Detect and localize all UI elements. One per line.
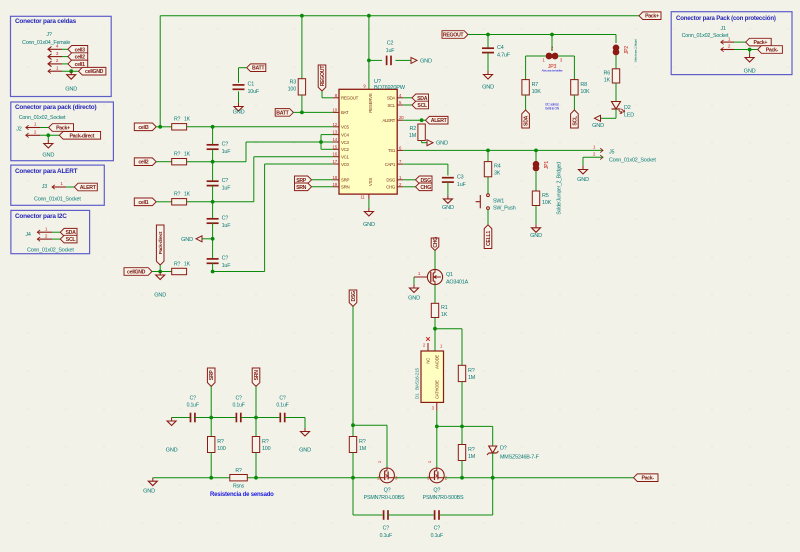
svg-text:GND: GND [42, 153, 54, 159]
gnd global label right of C2 [411, 57, 432, 64]
annotation box Conector para I2C [11, 210, 90, 253]
svg-text:100: 100 [288, 86, 297, 92]
title Conector para ALERT [15, 168, 78, 175]
svg-text:0.1uF: 0.1uF [276, 403, 288, 409]
connector J3 value Conn_01x01_Socket [34, 197, 81, 203]
svg-text:SDA: SDA [387, 96, 395, 101]
wire R5 to GND [535, 206, 537, 225]
svg-text:SRP: SRP [209, 370, 215, 381]
wire JP3 stub [551, 35, 553, 52]
wire J2 pin1 to Pack+ label [40, 127, 49, 129]
capacitor C? 0.1uF (left) [191, 413, 195, 423]
solder jumper JP3 [542, 46, 563, 63]
label cell3 [68, 46, 88, 54]
resistor R2 1M [409, 124, 425, 141]
svg-text:1: 1 [440, 344, 443, 349]
svg-text:Conector para Pack (con protec: Conector para Pack (con protección) [676, 15, 776, 22]
connector J5 reference [609, 150, 614, 156]
resistor R? Rsns [230, 475, 248, 481]
wire cell3 row to VC5 [213, 126, 333, 128]
svg-text:RESERVE: RESERVE [368, 93, 373, 113]
wire cell2 label to resistor [156, 161, 172, 163]
svg-text:C?: C? [279, 396, 286, 402]
svg-text:20: 20 [399, 115, 404, 120]
svg-text:1K: 1K [184, 117, 191, 123]
capacitor C? snubber right fields [431, 526, 443, 540]
wire snubber left riser [353, 478, 383, 515]
junction cap chain cell3 [211, 125, 215, 129]
svg-text:3: 3 [432, 406, 435, 411]
connector J1 pin 1 [721, 36, 734, 44]
svg-text:18: 18 [333, 175, 338, 180]
title Conector para celdas [15, 18, 77, 25]
svg-text:cellGND: cellGND [85, 69, 104, 75]
ground below C4 [482, 71, 494, 91]
svg-text:R3: R3 [290, 79, 297, 85]
svg-text:BAS16-215: BAS16-215 [415, 368, 420, 390]
wire C2 node to cap [369, 59, 382, 61]
ground below J5 pin2 [577, 166, 589, 183]
wire R3 to BAT node [301, 95, 303, 112]
connector J? pin 1 [48, 65, 62, 73]
label BATT at C1 [247, 64, 266, 72]
LED D2 reference [624, 105, 631, 111]
IC U? reference [374, 79, 381, 85]
svg-text:6: 6 [399, 145, 402, 150]
svg-text:VC1: VC1 [341, 155, 349, 160]
resistor R6 1K [604, 69, 620, 84]
svg-text:19: 19 [333, 182, 338, 187]
svg-text:3: 3 [56, 51, 59, 56]
connector J2 pin 2 [26, 130, 40, 138]
svg-text:D1: D1 [415, 393, 420, 399]
annotation box Conector para Pack con proteccion [671, 12, 792, 75]
svg-text:12: 12 [333, 122, 338, 127]
svg-text:Conn_01x02_Socket: Conn_01x02_Socket [682, 33, 729, 39]
wire J2 pin2 gnd stem [47, 135, 49, 140]
svg-text:1M: 1M [409, 133, 417, 139]
wire source rail right [445, 477, 634, 479]
svg-text:0.1uF: 0.1uF [187, 403, 199, 409]
resistor Rsns fields [233, 468, 245, 490]
svg-text:R7: R7 [532, 82, 539, 88]
wire SRP to R100 [210, 418, 212, 437]
wire SW1 to CELL1 label [487, 210, 489, 225]
svg-text:R?: R? [217, 439, 224, 445]
wire cell1 label to resistor [156, 201, 172, 203]
svg-text:PSMN7R0-500BS: PSMN7R0-500BS [423, 495, 464, 501]
wire pin 1 to cellGND label [62, 70, 79, 72]
wire zener to rail [492, 453, 494, 478]
svg-text:R4: R4 [494, 164, 501, 170]
svg-text:C?: C? [222, 256, 229, 262]
label CHG (vertical) [431, 237, 439, 251]
label SDA (vertical) [522, 110, 530, 128]
resistor fields R? 1K (cellGND row) [174, 261, 191, 267]
svg-text:2: 2 [56, 58, 59, 63]
label Pack+ (directo) [49, 124, 74, 132]
resistor fields R? 1K (cell2 row) [174, 152, 191, 158]
svg-text:GND: GND [166, 448, 178, 454]
svg-text:CAP1: CAP1 [385, 162, 396, 167]
label SRP (vertical) [207, 368, 215, 386]
svg-text:R?: R? [468, 447, 475, 453]
connector J1 reference [721, 26, 726, 32]
junction J2 pin2 gnd [46, 133, 50, 137]
svg-text:R6: R6 [604, 71, 611, 77]
svg-text:R?: R? [468, 368, 475, 374]
svg-text:Resistencia de sensado: Resistencia de sensado [210, 492, 274, 498]
svg-text:NC: NC [426, 358, 431, 364]
svg-text:AO3401A: AO3401A [446, 280, 469, 286]
zener diode D? MMSZ5246B [487, 446, 498, 455]
svg-text:C?: C? [235, 396, 242, 402]
svg-text:GND: GND [442, 205, 454, 211]
wire JP1 to R5 [535, 171, 537, 191]
ground at Q1 gate [408, 285, 420, 302]
capacitor C? 0.1uF left fields [187, 396, 199, 409]
connector J1 value Conn_01x02_Socket [682, 33, 729, 39]
svg-text:CATHODE: CATHODE [435, 380, 440, 399]
title Conector para pack (directo) [15, 104, 96, 111]
svg-text:J3: J3 [42, 184, 47, 190]
svg-text:100: 100 [262, 446, 271, 452]
junction cap chain cellGND [211, 270, 215, 274]
svg-text:J1: J1 [721, 26, 726, 32]
wire SRN label down [255, 386, 257, 417]
transistor Q1 reference [446, 272, 453, 278]
Q? left value PSMN7R0-L00BS [364, 495, 405, 501]
svg-text:SCL: SCL [387, 103, 395, 108]
diode D1 BAS16-215 body [421, 351, 444, 402]
wire Pack-direct label to cellGND row [159, 265, 161, 272]
wire JP3 left to R7 [526, 56, 546, 80]
junction TS1 JP1 [534, 149, 538, 153]
wire VC3 stub [321, 141, 333, 143]
ground left of cap row [166, 418, 178, 454]
svg-text:2: 2 [45, 233, 48, 238]
svg-text:2: 2 [551, 46, 554, 51]
capacitor C? 0.1uF (mid) [236, 413, 240, 423]
junction C2 node [367, 59, 371, 63]
svg-text:VC5: VC5 [341, 125, 349, 130]
capacitor C4 4.7uF [482, 45, 511, 59]
svg-text:9: 9 [363, 84, 366, 89]
wire node to upper R 1M [461, 329, 463, 366]
svg-text:GND: GND [233, 110, 245, 116]
svg-text:4.7uF: 4.7uF [497, 52, 511, 58]
label BATT at BAT pin [275, 109, 293, 117]
connector J? value Conn_01x04_Female [22, 40, 70, 46]
svg-text:SRN: SRN [254, 370, 260, 381]
resistor fields R? 1K (cell1 row) [174, 192, 191, 198]
diode D1 fields [415, 368, 420, 399]
ground in box2 [42, 140, 54, 159]
svg-text:GND: GND [577, 177, 589, 183]
resistor R? 1K (cellGND row) [172, 268, 187, 274]
svg-text:0.1uF: 0.1uF [380, 533, 392, 539]
wire C2 to GND label [395, 59, 411, 61]
svg-text:0.1uF: 0.1uF [232, 403, 244, 409]
label ALERT at IC [426, 116, 449, 124]
label SDA (box4) [60, 228, 77, 236]
label cell1 [68, 60, 88, 68]
annotation box Conector para pack directo [11, 102, 114, 161]
wire D1 cathode to gate node 2 [436, 411, 438, 427]
junction cap chain cell1 [211, 200, 215, 204]
svg-text:3: 3 [560, 58, 563, 63]
wire C4 to GND [487, 53, 489, 71]
wire SCL pin to label [403, 104, 412, 106]
svg-text:SDA: SDA [524, 115, 530, 126]
resistor fields R? 1K (cell3 row) [174, 117, 191, 123]
wire CHG node to zener column [437, 425, 493, 427]
wire top rail BATT to Pack+ [160, 15, 639, 17]
svg-text:DSG: DSG [386, 178, 395, 183]
capacitor C? 1uF (C) [207, 216, 232, 230]
wire DSG pin to label [403, 179, 415, 181]
svg-text:SW_Push: SW_Push [493, 206, 516, 212]
diode D1 pin names [426, 355, 440, 399]
wire R8 to SCL vlabel [573, 95, 575, 110]
wire REGOUT rail [468, 34, 616, 36]
resistor R7 10K [522, 80, 541, 95]
junction R 1M right top [460, 425, 464, 429]
wire R7 to SDA vlabel [525, 95, 527, 110]
svg-text:GND: GND [181, 237, 193, 243]
svg-text:ANODE: ANODE [435, 355, 440, 369]
wire REGOUT rail to JP2 [615, 35, 617, 44]
svg-text:BQ76920PW: BQ76920PW [374, 85, 406, 91]
svg-text:16: 16 [333, 152, 338, 157]
svg-text:17: 17 [333, 159, 338, 164]
JP1 reference [544, 161, 550, 169]
JP3 note (blue) [542, 69, 563, 73]
wire cell1 resistor to cap chain [187, 201, 213, 203]
wire J5 pin2 to GND [583, 157, 603, 166]
JP2 reference [624, 46, 630, 54]
svg-text:ALERT: ALERT [80, 185, 97, 191]
label REGOUT (vertical) [318, 65, 326, 91]
switch SW1 SW_Push [476, 194, 490, 210]
svg-text:GND: GND [299, 448, 311, 454]
svg-text:TS1: TS1 [388, 148, 396, 153]
svg-text:Q1: Q1 [446, 272, 453, 278]
gnd global label below R2 [427, 140, 448, 147]
wire R1 to gate node [434, 318, 436, 329]
zener D? value MMSZ5246B-7-F [500, 455, 540, 461]
junction VC3 tie [319, 140, 323, 144]
svg-text:cell3: cell3 [138, 125, 148, 131]
wire cap row left gnd [172, 417, 191, 419]
wire cell3 resistor to cap chain [187, 126, 213, 128]
svg-text:ALERT: ALERT [382, 118, 395, 123]
svg-text:cell1: cell1 [138, 200, 148, 206]
svg-text:VSS: VSS [368, 178, 373, 186]
wire SRP label to pin [312, 179, 334, 181]
wire J3 pin1 to ALERT label [66, 186, 74, 188]
svg-text:1uF: 1uF [222, 263, 232, 269]
label SRN (vertical) [252, 368, 260, 386]
svg-text:1: 1 [45, 226, 48, 231]
label cell1 (row) [134, 198, 156, 206]
wire cap chain segment D [212, 223, 214, 259]
label Pack+ (top right) [639, 12, 661, 20]
capacitor C? snubber left fields [380, 526, 392, 540]
connector J2 reference [16, 127, 21, 133]
junction cellGND gnd [158, 270, 162, 274]
capacitor C2 reference [387, 41, 394, 47]
label CELL1 (vertical) [484, 225, 492, 249]
wire cap row seg1b [195, 417, 211, 419]
label Pack- (rail) [634, 474, 659, 482]
wire SRN to R100 [255, 418, 257, 437]
svg-text:REGOUT: REGOUT [320, 65, 326, 87]
capacitor C? 0.1uF right fields [276, 396, 288, 409]
capacitor C3 1uF [442, 174, 467, 188]
wire pin 2 to cell1 label [62, 63, 68, 65]
resistor R4 3K [484, 162, 500, 177]
wire cell2 resistor to cap chain [187, 161, 213, 163]
wire CAP1 to C3 [403, 164, 448, 175]
wire J4 pin2 to SCL label [52, 238, 60, 240]
svg-text:R5: R5 [542, 193, 549, 199]
wire cap chain segment B [212, 149, 214, 181]
svg-text:1: 1 [418, 271, 421, 276]
connector J? pin 2 [48, 58, 62, 67]
svg-text:Pack-: Pack- [641, 476, 654, 482]
svg-text:C?: C? [190, 396, 197, 402]
svg-text:Conn_01x02_Socket: Conn_01x02_Socket [609, 158, 656, 164]
svg-text:SRN: SRN [296, 185, 307, 191]
wire TS1 to JP1 [535, 150, 537, 161]
connector J? pin 4 [48, 44, 62, 53]
JP3 reference [548, 64, 557, 70]
pin number 9 (reserve) [363, 84, 366, 89]
wire R 1M to source rail [352, 453, 354, 478]
wire SRP label down [210, 386, 212, 417]
svg-text:JP1: JP1 [544, 161, 550, 169]
wire gate node to right branch [435, 328, 462, 330]
svg-text:Abrir para deshabilitar: Abrir para deshabilitar [542, 69, 563, 73]
annotation box Conector para celdas [11, 16, 112, 96]
resistor R5 10K [532, 191, 551, 206]
connector J? reference [46, 32, 51, 38]
Q? left reference [384, 488, 391, 494]
ground below R5 [530, 224, 542, 239]
svg-text:10K: 10K [542, 200, 552, 206]
svg-text:C?: C? [222, 142, 229, 148]
svg-text:D2: D2 [624, 105, 631, 111]
label Pack-direct [59, 132, 100, 140]
connector J4 value Conn_01x02_Socket [27, 247, 74, 253]
svg-text:GND: GND [65, 87, 77, 93]
svg-text:1: 1 [34, 122, 37, 127]
junction cell3 top-rail column [158, 125, 162, 129]
svg-text:Conn_01x01_Socket: Conn_01x01_Socket [34, 197, 81, 203]
ground below C3 [442, 195, 454, 211]
wire J4 pin1 to SDA label [52, 231, 60, 233]
wire CHG gate riser [436, 426, 438, 468]
svg-text:1K: 1K [441, 312, 448, 318]
label CHG at IC [416, 183, 433, 191]
wire CHG label to Q1 [434, 251, 436, 270]
svg-text:GND: GND [143, 489, 155, 495]
svg-text:R?: R? [174, 117, 181, 123]
svg-text:R?: R? [359, 439, 366, 445]
resistor R1 1K [431, 303, 447, 318]
label Pack+ (box5) [746, 38, 772, 46]
wire DSG node to R 1M [352, 425, 354, 436]
IC U? value BQ76920PW [374, 85, 406, 91]
svg-text:SCL: SCL [417, 103, 428, 109]
junction cap chain cell2 [211, 160, 215, 164]
svg-text:1: 1 [377, 460, 382, 463]
svg-text:Q?: Q? [384, 488, 391, 494]
svg-text:2: 2 [593, 152, 596, 157]
svg-text:SW1: SW1 [493, 199, 504, 205]
svg-text:GND: GND [530, 233, 542, 239]
gnd global label cap chain [181, 236, 202, 243]
op-amp U1 BQ76920PW body [339, 89, 397, 194]
svg-text:1M: 1M [468, 454, 476, 460]
svg-text:Conn_01x02_Socket: Conn_01x02_Socket [27, 247, 74, 253]
junction gnd tap [211, 237, 215, 241]
svg-text:1uF: 1uF [222, 185, 232, 191]
resistor R? 1K (cell1 row) [172, 199, 187, 205]
label SCL at IC [412, 101, 429, 109]
svg-text:R?: R? [174, 261, 181, 267]
resistor R? 1K (cell3 row) [172, 124, 187, 130]
connector J2 value Conn_01x02_Socket [19, 115, 66, 121]
svg-text:Pack-direct: Pack-direct [158, 231, 164, 254]
svg-text:ALERT: ALERT [431, 118, 448, 124]
connector J5 pin 2 [593, 152, 603, 160]
wire cellGND label to resistor [152, 271, 172, 273]
IC U? left pins [333, 93, 359, 190]
connector J4 pin 1 [37, 226, 52, 234]
solder jumper JP1 [533, 161, 540, 171]
wire ALERT pin to label [403, 119, 425, 121]
wire JP3 right to R8 [559, 56, 575, 80]
svg-text:1M: 1M [468, 375, 476, 381]
svg-text:GND: GND [744, 69, 756, 75]
wire lower R 1M to rail [461, 461, 463, 478]
svg-text:CHG: CHG [420, 185, 431, 191]
svg-text:1: 1 [593, 145, 596, 150]
svg-text:CHG: CHG [386, 185, 396, 190]
ground below C1 [233, 103, 245, 116]
label cell2 (row) [134, 158, 156, 166]
label cellGND (row) [124, 268, 152, 276]
wire top rail down to cell3 row [159, 16, 161, 127]
label SRN at IC [295, 183, 312, 191]
IC U? VSS pin stub [360, 194, 369, 199]
svg-text:C3: C3 [457, 174, 464, 180]
connector J3 pin 1 [52, 181, 66, 189]
wire cap row seg2b [211, 417, 235, 419]
wire cap chain segment E [212, 263, 214, 271]
capacitor C? 1uF (A) [207, 142, 232, 156]
I2C address note (blue) [545, 103, 560, 111]
wire Q1 to R1 [434, 285, 436, 304]
LED D2 [612, 102, 625, 114]
junction CHG gate node [435, 425, 439, 429]
junction SRP cap row [209, 416, 213, 420]
svg-text:SCL: SCL [66, 237, 77, 243]
wire R2 to GND label [422, 141, 427, 143]
note Resistencia de sensado [210, 492, 274, 498]
